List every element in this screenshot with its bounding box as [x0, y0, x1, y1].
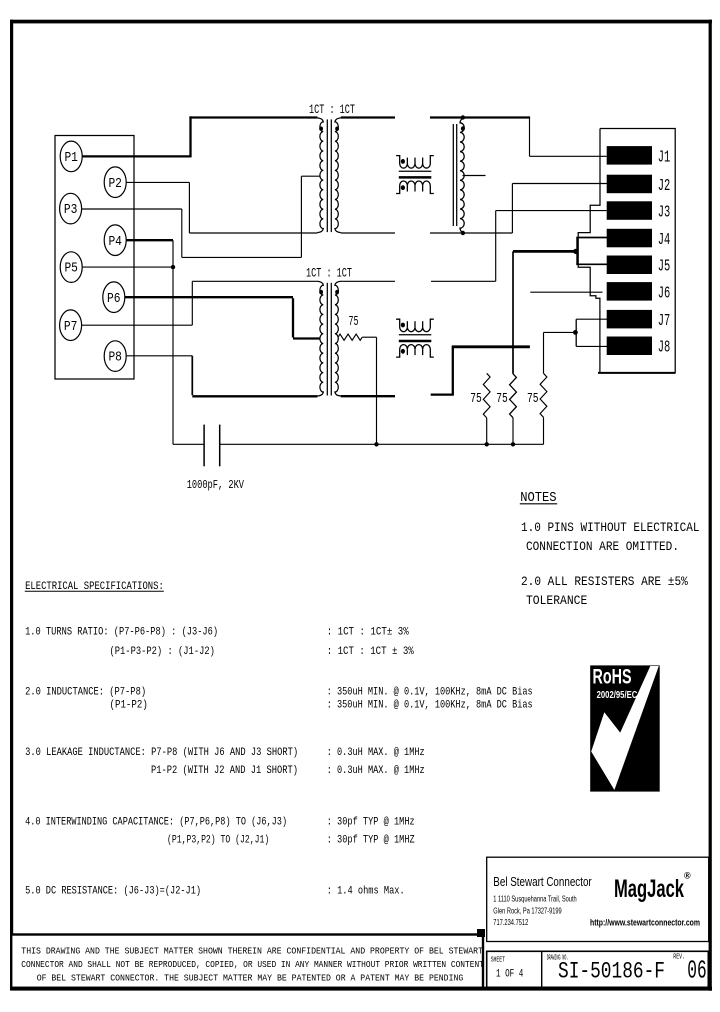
label T1 ratio 1CT : 1CT — [309, 102, 355, 117]
wire R3 bottom lead — [543, 417, 545, 444]
wire R2 bottom lead — [512, 418, 514, 445]
svg-text:06: 06 — [687, 956, 706, 986]
contact pad J5 — [607, 256, 671, 276]
transformer T2 (1CT:1CT) — [317, 281, 341, 396]
title block frame — [487, 951, 709, 987]
spec 1.0 value line 2 — [327, 646, 415, 658]
wire T1 center tap lead — [301, 175, 320, 177]
logo RoHS compliance mark — [590, 665, 660, 791]
title block sheet 1 OF 4 — [496, 968, 524, 980]
wire T2 top left segment — [192, 280, 317, 282]
wire T2 bottom mid segment — [341, 395, 395, 397]
wire P3 riser to T1 center tap — [300, 176, 302, 257]
text Bel Stewart Connector — [493, 874, 592, 889]
wire J7-J8 bracket — [575, 319, 577, 346]
label R3 value 75 — [527, 391, 539, 407]
svg-text:Glen Rock, Pa 17327-9199: Glen Rock, Pa 17327-9199 — [493, 907, 562, 916]
spec 3.0 value line 1 — [327, 747, 425, 759]
svg-text:: 1.4 ohms Max.: : 1.4 ohms Max. — [327, 886, 405, 898]
wire L1 center tap stub — [463, 175, 486, 177]
svg-text:http://www.stewartconnector.co: http://www.stewartconnector.com — [590, 918, 700, 928]
svg-text:CONNECTION ARE OMITTED.: CONNECTION ARE OMITTED. — [526, 539, 679, 554]
svg-text:: 350uH MIN. @ 0.1V, 100KHz, 8: : 350uH MIN. @ 0.1V, 100KHz, 8mA DC Bias — [327, 687, 533, 699]
wire J6 feed — [530, 291, 602, 293]
svg-text:P1: P1 — [64, 150, 78, 166]
wire T2 center tap lead — [293, 337, 320, 339]
border frame left — [10, 20, 13, 934]
node P4-P5 junction — [171, 265, 175, 269]
svg-text:J1: J1 — [658, 147, 671, 166]
svg-text:J7: J7 — [658, 311, 671, 330]
svg-text:J4: J4 — [658, 230, 671, 249]
wire P6 stub — [125, 296, 293, 298]
svg-text:1 1110 Susquehanna Trail, Sout: 1 1110 Susquehanna Trail, South — [493, 895, 576, 904]
choke CM2 — [396, 319, 434, 357]
node rail-R2 junction — [511, 442, 515, 446]
notes heading NOTES — [520, 490, 557, 506]
spec 2.0 inductance line 2 — [110, 700, 148, 712]
svg-text:P5: P5 — [64, 261, 78, 277]
svg-text:TOLERANCE: TOLERANCE — [526, 593, 587, 608]
title block revision 06 — [687, 956, 706, 986]
inductor L1 winding — [453, 118, 465, 232]
spec 5.0 value — [327, 886, 405, 898]
svg-text:(P1-P3-P2) : (J1-J2): (P1-P3-P2) : (J1-J2) — [110, 646, 215, 658]
svg-text:J2: J2 — [658, 176, 671, 195]
note 2.0 line 2 — [526, 593, 587, 608]
wire J4 feed — [576, 237, 607, 239]
svg-text:SI-50186-F: SI-50186-F — [558, 959, 665, 985]
wire R1 bottom lead — [486, 418, 488, 444]
note 1.0 line 1 — [521, 520, 700, 535]
svg-text:75: 75 — [527, 391, 539, 407]
wire T1 bottom right segment — [430, 232, 512, 234]
svg-text:1 OF 4: 1 OF 4 — [496, 968, 524, 980]
node J4-J5 junction — [573, 249, 578, 254]
node rail-R75a junction — [374, 442, 378, 446]
spec 4.0 value line 1 — [327, 817, 415, 829]
wire J2 feed — [512, 183, 606, 185]
pin P7 — [60, 310, 82, 341]
wire T1 top right segment — [430, 116, 530, 118]
contact pad J2 — [607, 175, 671, 195]
wire P4-P5 drop to capacitor — [172, 240, 174, 444]
svg-text:P3: P3 — [64, 202, 78, 218]
label R1 value 75 — [470, 391, 482, 407]
svg-text:(P1,P3,P2) TO (J2,J1): (P1,P3,P2) TO (J2,J1) — [167, 835, 269, 847]
svg-text:1CT : 1CT: 1CT : 1CT — [306, 266, 352, 281]
svg-text:1.0 TURNS RATIO: (P7-P6-P8) :: 1.0 TURNS RATIO: (P7-P6-P8) : (J3-J6) — [25, 627, 218, 639]
svg-text:2.0 ALL RESISTERS ARE ±5%: 2.0 ALL RESISTERS ARE ±5% — [521, 574, 688, 589]
wire P2 drop — [188, 182, 190, 233]
svg-text:1.0 PINS WITHOUT ELECTRICAL: 1.0 PINS WITHOUT ELECTRICAL — [521, 520, 700, 535]
wire P3 stub — [82, 208, 182, 210]
svg-text:1CT : 1CT: 1CT : 1CT — [309, 102, 355, 117]
border frame bottom bar — [10, 987, 712, 991]
wire J8 feed — [576, 345, 607, 347]
svg-text:OF BEL STEWART CONNECTOR. THE: OF BEL STEWART CONNECTOR. THE SUBJECT MA… — [37, 973, 464, 984]
resistor R3 zigzag — [540, 373, 547, 417]
svg-text:Bel Stewart Connector: Bel Stewart Connector — [493, 874, 592, 889]
wire T2 bottom right segment — [431, 393, 453, 395]
label C1 value 1000pF, 2KV — [187, 478, 245, 492]
svg-text:P4: P4 — [108, 234, 122, 250]
transformer T1 (1CT:1CT) — [317, 118, 341, 233]
title block label SHEET — [491, 956, 505, 964]
wire P8 drop — [191, 356, 193, 395]
svg-text:P8: P8 — [108, 350, 122, 366]
spec 4.0 capacitance line 1 — [25, 817, 287, 829]
wire P7 riser — [191, 281, 193, 325]
text address line 1 — [493, 895, 576, 904]
text website url — [590, 918, 700, 928]
capacitor C1 plates — [204, 425, 220, 467]
contact pad J7 — [607, 310, 671, 330]
svg-text:2.0 INDUCTANCE: (P7-P8): 2.0 INDUCTANCE: (P7-P8) — [25, 687, 146, 699]
wire T1 bottom mid segment — [341, 232, 395, 234]
spec 3.0 value line 2 — [327, 765, 425, 777]
wire capacitor lead left — [173, 443, 204, 445]
fold mark — [477, 929, 485, 937]
svg-text:CONNECTOR AND SHALL NOT BE REP: CONNECTOR AND SHALL NOT BE REPRODUCED, C… — [21, 959, 484, 970]
spec 3.0 leakage line 2 — [151, 765, 298, 777]
svg-text:2002/95/EC: 2002/95/EC — [597, 690, 638, 701]
resistor R1 zigzag — [483, 373, 490, 418]
svg-text:: 1CT : 1CT± 3%: : 1CT : 1CT± 3% — [327, 627, 410, 639]
svg-text:75: 75 — [470, 391, 482, 407]
svg-text:SHEET: SHEET — [491, 956, 505, 964]
svg-text:(P1-P2): (P1-P2) — [110, 700, 148, 712]
wire P2 stub — [126, 181, 189, 183]
wire T2 secondary stub (thick) — [452, 345, 530, 348]
disclaimer box — [11, 935, 483, 989]
label R75a value 75 — [349, 314, 359, 330]
label T2 ratio 1CT : 1CT — [306, 266, 352, 281]
wire P5 stub — [82, 266, 173, 268]
svg-text:J3: J3 — [658, 203, 671, 222]
svg-text:75: 75 — [496, 391, 508, 407]
wire T2 bottom riser — [452, 346, 454, 396]
svg-text:717.234.7512: 717.234.7512 — [493, 918, 528, 927]
svg-text:5.0 DC RESISTANCE: (J6-J3)=(J2: 5.0 DC RESISTANCE: (J6-J3)=(J2-J1) — [25, 886, 201, 898]
svg-text:J6: J6 — [658, 283, 671, 302]
wire J2 riser — [511, 184, 513, 234]
svg-text:: 0.3uH MAX. @ 1MHz: : 0.3uH MAX. @ 1MHz — [327, 765, 425, 777]
svg-text:: 0.3uH MAX. @ 1MHz: : 0.3uH MAX. @ 1MHz — [327, 747, 425, 759]
spec 3.0 leakage line 1 — [25, 747, 298, 759]
node J7-J8 junction — [573, 330, 578, 335]
svg-text:4.0 INTERWINDING CAPACITANCE:: 4.0 INTERWINDING CAPACITANCE: (P7,P6,P8)… — [25, 817, 287, 829]
svg-text:1000pF, 2KV: 1000pF, 2KV — [187, 478, 245, 492]
text address line 2 — [493, 907, 562, 916]
wire R3 top lead — [543, 332, 545, 373]
svg-text:J8: J8 — [658, 338, 671, 357]
wire P1 stub — [82, 155, 190, 157]
contact pad J4 — [607, 229, 671, 249]
spec 4.0 capacitance line 2 — [167, 835, 269, 847]
wire P3 run — [182, 256, 302, 258]
wire J1 drop — [529, 118, 531, 157]
wire P6 drop — [292, 298, 294, 337]
svg-text:P6: P6 — [107, 291, 121, 307]
pin P1 — [60, 141, 82, 172]
pin P5 — [60, 252, 82, 283]
wire P7 stub — [82, 324, 193, 326]
pin P8 — [104, 341, 126, 372]
connector P-side box — [55, 136, 134, 380]
wire J4-J5 bracket — [576, 238, 578, 265]
svg-text:REV.: REV. — [673, 954, 685, 962]
resistor R75a zigzag — [338, 334, 362, 340]
note 1.0 line 2 — [526, 539, 679, 554]
label R2 value 75 — [496, 391, 508, 407]
title block label REV. — [673, 954, 685, 962]
svg-text:RoHS: RoHS — [593, 666, 632, 689]
wire J5 feed — [576, 263, 607, 265]
spec 2.0 value line 2 — [327, 700, 533, 712]
spec 5.0 dc resistance — [25, 886, 201, 898]
pin P2 — [104, 167, 126, 198]
note 2.0 line 1 — [521, 574, 688, 589]
svg-text:P7: P7 — [64, 319, 78, 335]
choke CM1 — [396, 156, 434, 194]
wire P3 drop — [181, 209, 183, 257]
svg-text:75: 75 — [349, 314, 359, 330]
title block drawing number SI-50186-F — [558, 959, 665, 985]
disclaimer line 1 — [21, 946, 483, 957]
wire J3 feed — [496, 210, 607, 212]
disclaimer line 3 — [37, 973, 464, 984]
wire J3 riser — [495, 211, 497, 282]
pin P3 — [60, 193, 82, 224]
logo MagJack — [614, 871, 691, 904]
spec 2.0 inductance line 1 — [25, 687, 146, 699]
svg-text:: 30pf TYP @ 1MHz: : 30pf TYP @ 1MHz — [327, 817, 415, 829]
spec 1.0 turns ratio line 2 — [110, 646, 215, 658]
wire T1 top left segment — [189, 116, 317, 118]
wire J4-J5 feed (thick) — [513, 250, 576, 253]
svg-text:: 350uH MIN. @ 0.1V, 100KHz, 8: : 350uH MIN. @ 0.1V, 100KHz, 8mA DC Bias — [327, 700, 533, 712]
svg-text:®: ® — [684, 871, 691, 881]
svg-text:3.0 LEAKAGE INDUCTANCE: P7-P8: 3.0 LEAKAGE INDUCTANCE: P7-P8 (WITH J6 A… — [25, 747, 298, 759]
wire termination rail — [220, 443, 544, 445]
wire T1 bottom left segment — [189, 232, 317, 234]
node rail-R1 junction — [485, 442, 489, 446]
wire T2 top right segment — [431, 280, 496, 282]
wire J7-J8 feed — [544, 331, 576, 333]
wire T2 top mid segment — [341, 280, 395, 282]
spec heading ELECTRICAL SPECIFICATIONS: — [25, 581, 164, 593]
svg-text:: 1CT : 1CT ± 3%: : 1CT : 1CT ± 3% — [327, 646, 415, 658]
wire R75a drop to rail — [376, 337, 378, 444]
wire T1 top mid segment — [341, 116, 395, 118]
wire P1 riser — [189, 116, 191, 157]
wire P8 stub — [126, 355, 192, 357]
title block label DRAWING NO. — [547, 955, 569, 963]
spec 4.0 value line 2 — [327, 835, 415, 847]
manufacturer info box — [487, 857, 709, 941]
svg-text:: 30pf TYP @ 1MHZ: : 30pf TYP @ 1MHZ — [327, 835, 415, 847]
resistor R2 zigzag — [510, 374, 517, 418]
wire R2 top lead — [512, 251, 514, 373]
svg-text:P1-P2 (WITH J2 AND J1 SHORT): P1-P2 (WITH J2 AND J1 SHORT) — [151, 765, 298, 777]
contact pad J8 — [607, 337, 671, 357]
svg-text:THIS DRAWING AND THE SUBJECT M: THIS DRAWING AND THE SUBJECT MATTER SHOW… — [21, 946, 483, 957]
svg-text:J5: J5 — [658, 257, 671, 276]
wire J7 feed — [576, 318, 607, 320]
spec 1.0 value line 1 — [327, 627, 410, 639]
wire R75a lead right — [362, 336, 376, 338]
border frame top — [10, 20, 712, 24]
svg-text:MagJack: MagJack — [614, 875, 684, 903]
contact pad J3 — [607, 201, 671, 221]
svg-text:P2: P2 — [108, 176, 122, 192]
pin P6 — [103, 282, 125, 313]
node L1 top junction — [461, 115, 465, 119]
pin P4 — [104, 225, 126, 256]
disclaimer line 2 — [21, 959, 484, 970]
spec 2.0 value line 1 — [327, 687, 533, 699]
node L1 bottom junction — [461, 231, 465, 235]
border frame right — [709, 20, 712, 991]
contact pad J1 — [607, 146, 671, 166]
connector J-side box outline — [578, 129, 675, 373]
wire T2 bottom left segment — [192, 395, 317, 397]
wire P4 stub — [126, 239, 173, 241]
spec 1.0 turns ratio line 1 — [25, 627, 218, 639]
contact pad J6 — [607, 282, 671, 302]
text phone 717.234.7512 — [493, 918, 528, 927]
wire J1 feed — [530, 155, 607, 157]
